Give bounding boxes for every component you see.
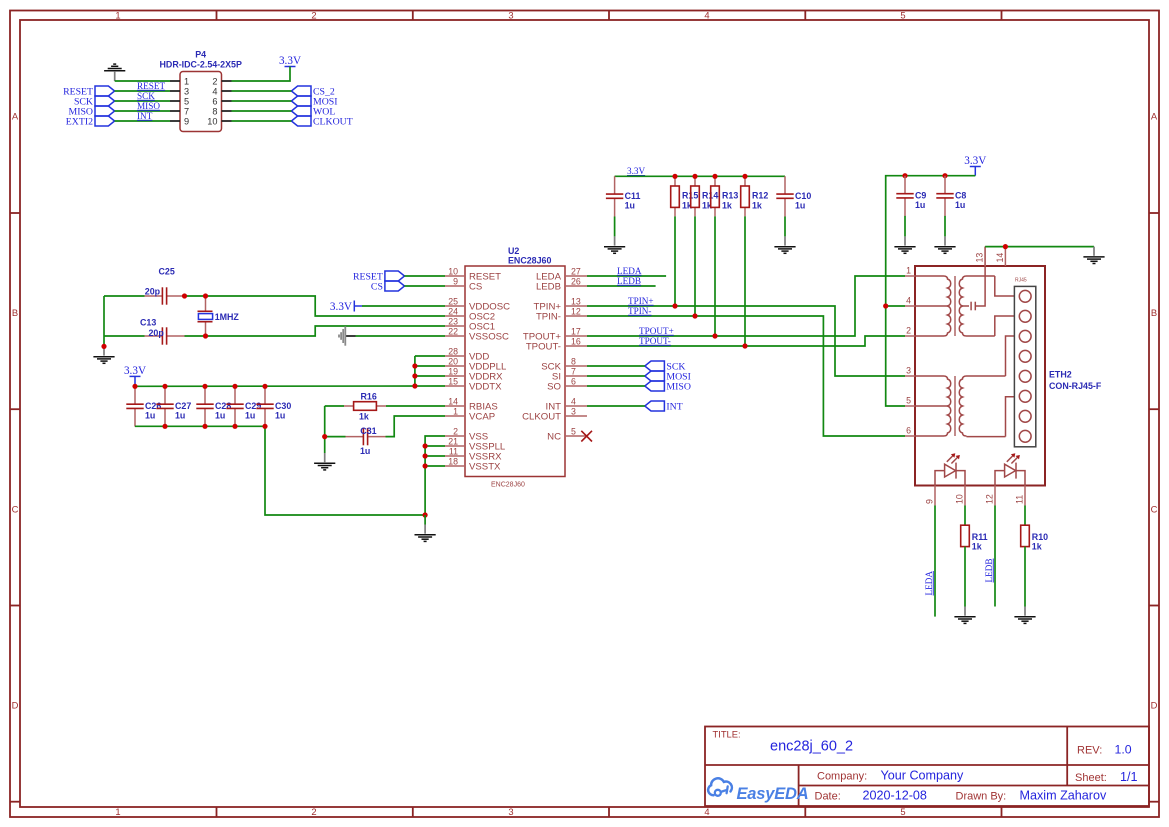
svg-text:A: A [1151,111,1158,122]
svg-text:24: 24 [448,306,458,316]
svg-text:1u: 1u [360,446,370,456]
svg-text:2: 2 [311,806,316,817]
wire net MOSI from U2 [587,375,645,377]
svg-text:R11: R11 [972,532,988,542]
wire R15 to TPIN+ [674,216,676,306]
svg-text:CLKOUT: CLKOUT [313,117,353,128]
svg-text:D: D [12,700,19,711]
svg-text:4: 4 [212,86,217,96]
svg-text:17: 17 [571,326,581,336]
ETH2 RJ45 jack body [1014,278,1035,447]
svg-text:1u: 1u [275,411,285,421]
wire crystal left leg [103,296,105,346]
svg-text:D: D [1151,700,1158,711]
svg-text:3.3V: 3.3V [964,155,986,167]
svg-text:TPOUT-: TPOUT- [639,336,671,346]
svg-text:ENC28J60: ENC28J60 [508,256,551,266]
svg-text:Company:: Company: [817,771,867,783]
net flag SCK [74,96,115,108]
wire ground drop below U2 [424,515,426,525]
svg-text:5: 5 [571,426,576,436]
junction dots (crystal nets) [101,293,208,349]
junction dots (3.3V rail) [672,174,747,179]
svg-text:2: 2 [311,9,316,20]
svg-text:C: C [12,504,19,515]
svg-text:3: 3 [508,9,513,20]
svg-text:R16: R16 [361,391,377,401]
svg-text:TPOUT-: TPOUT- [526,341,561,352]
wire net VCAP [325,436,346,438]
net flag RESET [353,271,405,283]
net flag MISO [645,381,691,393]
svg-text:U2: U2 [508,246,519,256]
wire net INT from U2 [587,405,645,407]
wire R12 to TPOUT- [744,216,746,346]
wire net LEDA (ETH2 pin 9) [934,506,936,617]
svg-text:C10: C10 [795,191,811,201]
svg-text:C25: C25 [159,267,175,277]
svg-text:12: 12 [571,306,581,316]
net flag MOSI [645,371,691,383]
svg-text:1k: 1k [752,200,762,210]
svg-text:5: 5 [900,806,905,817]
svg-text:3: 3 [906,365,911,375]
svg-text:MISO: MISO [137,101,160,111]
wire net LEDB (ETH2 pin 12) [994,506,996,607]
wire net OSC2 (crystal top) [104,295,145,297]
svg-text:TPIN-: TPIN- [536,311,561,322]
wire net LEDA [587,275,666,277]
svg-text:LEDA: LEDA [924,571,934,596]
svg-text:NC: NC [547,431,561,442]
svg-text:VDDTX: VDDTX [469,381,502,392]
svg-text:C30: C30 [275,401,291,411]
net flag CLKOUT [291,116,352,128]
svg-text:1: 1 [184,76,189,86]
svg-text:EasyEDA: EasyEDA [737,785,809,803]
svg-text:LEDB: LEDB [984,559,994,583]
svg-text:3: 3 [571,406,576,416]
junction dot (C31) [322,434,327,439]
svg-text:1u: 1u [915,200,925,210]
svg-text:20: 20 [448,356,458,366]
crystal X1 1MHZ [198,296,240,336]
svg-text:SO: SO [547,381,561,392]
ETH2 left pins 1,4,2,3,5,6 [905,265,915,436]
svg-text:TITLE:: TITLE: [713,729,741,740]
svg-text:14: 14 [995,253,1005,263]
svg-text:9: 9 [184,116,189,126]
wire U2 VSS pins to ground [425,436,445,515]
svg-text:Sheet:: Sheet: [1075,772,1107,784]
svg-text:ENC28J60: ENC28J60 [491,482,525,489]
title block [705,727,1149,807]
svg-text:6: 6 [212,96,217,106]
net flag RESET [63,86,115,98]
wire net MISO from U2 [587,385,645,387]
svg-text:3.3V: 3.3V [330,301,352,313]
wire net RESET (P4 left row y=91) [115,90,170,92]
svg-text:13: 13 [975,253,985,263]
capacitor C10 [776,176,811,216]
svg-text:1: 1 [453,406,458,416]
power flag 3.3V (RJ45 bias) [964,155,986,167]
svg-text:18: 18 [448,456,458,466]
wire net CS_2 (P4 right row y=91) [232,90,292,92]
resistor R14 [691,176,719,216]
wire U2 pin 22 to ground [356,335,446,337]
svg-text:3.3V: 3.3V [627,166,645,176]
connector P4 HDR-IDC-2.54-2X5P [160,50,242,132]
svg-text:20p: 20p [145,287,161,297]
svg-text:C26: C26 [145,401,161,411]
svg-text:26: 26 [571,276,581,286]
wire net CS to U2 pin 9 [405,285,446,287]
svg-text:Date:: Date: [815,791,841,803]
svg-text:P4: P4 [195,50,206,60]
wire net TPIN- [587,316,905,436]
svg-text:CLKOUT: CLKOUT [522,411,561,422]
svg-text:4: 4 [571,396,576,406]
ground (ETH2 shield) [1083,247,1104,264]
wire net TPOUT+ [587,276,905,336]
svg-text:VSSOSC: VSSOSC [469,331,509,342]
resistor R12 [741,176,769,216]
ground (U2 pin 22 VSSOSC, rotated) [339,326,356,345]
svg-text:C31: C31 [360,426,376,436]
wire P4 pin1 to ground [115,80,170,82]
svg-text:19: 19 [448,366,458,376]
connector ETH2 CON-RJ45-F [915,266,1102,486]
svg-text:11: 11 [1014,495,1024,504]
wire net TPIN+ [587,306,905,376]
svg-text:2: 2 [906,325,911,335]
svg-text:HDR-IDC-2.54-2X5P: HDR-IDC-2.54-2X5P [160,60,242,70]
wire 3.3V flag stem [134,376,136,386]
wire net INT (P4 left row y=121) [115,120,170,122]
junction dots (right rail) [883,173,948,309]
svg-text:LEDB: LEDB [617,276,641,286]
svg-text:7: 7 [571,366,576,376]
wire net RESET to U2 pin 10 [405,275,446,277]
EasyEDA logo [708,778,808,803]
svg-text:14: 14 [448,396,458,406]
wire net MOSI (P4 right row y=101) [232,100,292,102]
svg-text:1.0: 1.0 [1115,742,1132,756]
svg-text:CS: CS [469,281,482,292]
svg-text:Maxim Zaharov: Maxim Zaharov [1020,789,1107,803]
svg-text:16: 16 [571,336,581,346]
net flag CS_2 [291,86,334,98]
wire 3.3V rail (top middle) [615,175,785,177]
capacitor C26 [126,386,161,426]
net flag MISO [69,106,115,118]
capacitor C29 [226,386,261,426]
svg-text:3.3V: 3.3V [279,55,301,67]
svg-text:LEDB: LEDB [536,281,561,292]
svg-text:8: 8 [212,106,217,116]
svg-text:1: 1 [906,265,911,275]
net flag SCK [645,361,686,373]
wire C11 to ground [614,217,616,237]
svg-text:1u: 1u [795,200,805,210]
svg-text:3: 3 [508,806,513,817]
svg-text:1u: 1u [625,200,635,210]
svg-text:C27: C27 [175,401,191,411]
svg-text:4: 4 [704,806,709,817]
svg-text:4: 4 [704,9,709,20]
svg-text:5: 5 [906,395,911,405]
ETH2 LED 2 (LEDB) [995,453,1025,485]
capacitor C8 [936,176,966,216]
svg-text:C9: C9 [915,190,926,200]
capacitor C9 [896,176,926,216]
wire net +3.3V to VDD pins [415,355,445,357]
svg-text:2: 2 [453,426,458,436]
svg-text:10: 10 [448,266,458,276]
ground (U2 VSS) [415,525,436,542]
svg-text:B: B [1151,307,1157,318]
svg-text:5: 5 [900,9,905,20]
wire net SCK (P4 left row y=101) [115,100,170,102]
net flag MOSI [291,96,337,108]
svg-text:Your Company: Your Company [881,769,965,783]
svg-text:RESET: RESET [137,81,165,91]
svg-text:5: 5 [184,96,189,106]
junction dots (VDD bank) [412,363,417,388]
ground (R16/C31) [314,453,335,470]
ETH2 LED 1 (LEDA) [935,453,965,485]
junction dots (cap bank) [132,384,267,429]
svg-text:B: B [12,307,18,318]
junction dots (VSS bank) [423,443,428,517]
wire C10 to ground [784,217,786,237]
svg-text:6: 6 [906,425,911,435]
ETH2 bottom pins 9,10,12,11 [924,485,1025,505]
svg-text:1k: 1k [359,412,369,422]
svg-text:12: 12 [984,494,994,504]
svg-text:8: 8 [571,356,576,366]
svg-text:10: 10 [954,494,964,504]
wire R10 to ground [1024,547,1026,607]
svg-text:1u: 1u [955,200,965,210]
svg-text:9: 9 [453,276,458,286]
svg-text:INT: INT [666,402,682,413]
svg-text:C: C [1151,504,1158,515]
svg-text:27: 27 [571,266,581,276]
wire net LEDB [587,285,656,287]
wire 3.3V flag stem (right) [974,167,976,176]
svg-text:C28: C28 [215,401,231,411]
svg-text:15: 15 [448,376,458,386]
ground (R10) [1014,607,1035,624]
svg-text:10: 10 [207,116,217,126]
svg-text:EXTI2: EXTI2 [66,117,93,128]
svg-text:21: 21 [448,436,458,446]
svg-text:1: 1 [115,806,120,817]
svg-text:3.3V: 3.3V [124,365,146,377]
wire ETH2 pins 13,14 to ground [985,246,1094,248]
ground (C10) [774,236,795,253]
svg-text:1u: 1u [245,411,255,421]
svg-text:2: 2 [212,76,217,86]
svg-text:Drawn By:: Drawn By: [956,791,1007,803]
ETH2 transformer T1 (upper) [915,247,1019,336]
svg-text:28: 28 [448,346,458,356]
power flag 3.3V (cap bank) [124,365,146,377]
wire 3.3V to ETH2 pin 4 [886,305,905,307]
svg-text:1k: 1k [972,542,982,552]
svg-text:VSSTX: VSSTX [469,461,501,472]
svg-text:R12: R12 [752,191,768,201]
svg-text:20p: 20p [149,328,165,338]
svg-text:22: 22 [448,326,458,336]
wire net TPOUT- [587,336,905,346]
svg-text:C11: C11 [625,191,641,201]
power flag 3.3V (P4 pin 2) [279,55,301,67]
junction dots (TP lines) [672,303,747,348]
svg-text:C29: C29 [245,401,261,411]
wire cap bank bottom rail / VSS run [135,426,425,515]
wire ETH2 pin 11 to R10 [1024,506,1026,526]
svg-text:REV:: REV: [1077,744,1102,756]
no-connect marker on U2 pin 5 [581,431,592,442]
svg-text:13: 13 [571,296,581,306]
wire net RBIAS [325,405,344,407]
wire net CLKOUT (P4 right row y=121) [232,120,292,122]
svg-text:R13: R13 [722,191,738,201]
net flag INT [645,401,683,413]
wire R13 to TPOUT+ [714,216,716,336]
IC U2 ENC28J60 [445,246,587,489]
svg-text:MISO: MISO [666,382,691,393]
capacitor C31 [346,426,386,456]
wire net OSC1 (crystal bottom) [104,335,145,337]
ground (crystal) [93,346,114,363]
wire C9 to ground [904,216,906,237]
resistor R13 [711,176,739,216]
svg-text:LEDA: LEDA [617,266,642,276]
wire 3.3V flag to U2 pin 25 [362,305,445,307]
svg-text:2020-12-08: 2020-12-08 [863,789,927,803]
wire R11 to ground [964,547,966,607]
svg-text:TPOUT+: TPOUT+ [639,326,674,336]
svg-text:4: 4 [906,295,911,305]
svg-text:C8: C8 [955,190,966,200]
svg-text:3: 3 [184,86,189,96]
svg-text:1: 1 [115,9,120,20]
wire R14 to TPIN- [694,216,696,316]
svg-text:C13: C13 [140,318,156,328]
capacitor C25 [145,267,185,305]
capacitor C13 [140,318,185,345]
svg-text:6: 6 [571,376,576,386]
wire 3.3V rail (right) [886,176,976,406]
power flag 3.3V (U2 pin 25) [330,301,354,313]
capacitor C11 [606,176,641,216]
svg-text:RJ45: RJ45 [1015,278,1027,284]
svg-text:1u: 1u [175,411,185,421]
svg-text:TPIN-: TPIN- [628,306,651,316]
svg-text:1u: 1u [215,411,225,421]
ETH2 top pins 13,14 [975,247,1006,266]
svg-text:1k: 1k [1032,542,1042,552]
net flag EXTI2 [66,116,115,128]
svg-text:1MHZ: 1MHZ [215,312,240,322]
svg-text:23: 23 [448,316,458,326]
net flag WOL [291,106,335,118]
svg-text:VCAP: VCAP [469,411,495,422]
ground (P4 pin 1) [104,64,125,81]
svg-text:INT: INT [137,111,153,121]
capacitor C27 [156,386,191,426]
wire net MISO (P4 left row y=111) [115,110,170,112]
svg-text:R10: R10 [1032,532,1048,542]
wire P4 pin2 to 3.3V [232,67,291,82]
svg-text:9: 9 [924,499,934,504]
svg-text:CS: CS [371,282,383,293]
svg-text:25: 25 [448,296,458,306]
svg-text:ETH2: ETH2 [1049,370,1072,380]
svg-text:SCK: SCK [137,91,155,101]
wire ETH2 pin 10 to R11 [964,506,966,526]
resistor R11 [961,525,988,552]
resistor R15 [671,176,699,216]
ground (R11) [954,607,975,624]
wire net SCK from U2 [587,365,645,367]
svg-text:TPIN+: TPIN+ [628,296,654,306]
net flag CS [371,281,405,293]
wire R16 to ground [324,406,326,453]
resistor R10 [1021,525,1048,552]
svg-text:CON-RJ45-F: CON-RJ45-F [1049,381,1102,391]
resistor R16 [344,391,386,421]
ground (C8) [934,236,955,253]
svg-text:7: 7 [184,106,189,116]
wire C8 to ground [944,216,946,237]
capacitor C30 [256,386,291,426]
svg-text:A: A [12,111,19,122]
svg-text:1/1: 1/1 [1120,770,1138,784]
svg-text:1k: 1k [722,200,732,210]
capacitor C28 [196,386,231,426]
wire net WOL (P4 right row y=111) [232,110,292,112]
svg-text:1u: 1u [145,411,155,421]
ground (C11) [604,236,625,253]
ground (C9) [894,236,915,253]
svg-text:11: 11 [449,446,458,456]
ETH2 transformer T2 (lower) [915,336,1019,437]
svg-text:enc28j_60_2: enc28j_60_2 [770,738,853,754]
